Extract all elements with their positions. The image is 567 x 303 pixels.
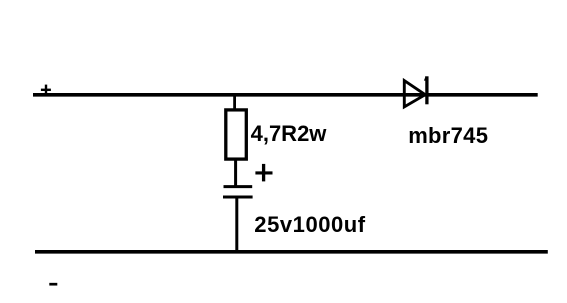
- resistor R1 body (4,7R 2w): [226, 110, 247, 159]
- wire: junction stub from top rail down to resistor: [233, 95, 236, 110]
- wire: stub from capacitor bottom plate to bottom rail: [235, 198, 238, 253]
- node B: minus polarity mark at bottom-left: [49, 283, 57, 286]
- wire: bottom rail (negative): [35, 250, 548, 254]
- node A: plus polarity mark at top-left input: [41, 85, 51, 96]
- capacitor C1 positive plus mark: [255, 164, 272, 182]
- diode D1 anode triangle: [404, 81, 425, 107]
- diode D1 cathode bar: [425, 76, 428, 104]
- svg-text:4,7R2w: 4,7R2w: [251, 121, 328, 146]
- capacitor C1 bottom plate: [223, 195, 253, 198]
- capacitor C1 top plate: [224, 185, 253, 188]
- diode D1 cathode bar pointed tip: [424, 76, 428, 81]
- svg-text:25v1000uf: 25v1000uf: [254, 212, 365, 237]
- wire: stub from resistor bottom to capacitor top plate: [234, 160, 237, 187]
- wire: top rail from + input through diode to output: [33, 93, 538, 97]
- svg-text:mbr745: mbr745: [408, 123, 488, 148]
